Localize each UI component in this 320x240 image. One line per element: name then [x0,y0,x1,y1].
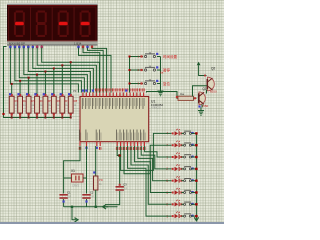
svg-text:P0: P0 [73,89,77,93]
svg-text:1k: 1k [99,183,102,186]
svg-text:Ca: Ca [180,92,184,96]
svg-text:CRYS: CRYS [72,184,79,188]
svg-text:22P: 22P [67,196,72,199]
svg-text:8550: 8550 [210,90,217,94]
svg-text:R8: R8 [74,99,78,103]
svg-text:1k: 1k [74,104,77,107]
svg-text:Q2: Q2 [211,67,215,71]
svg-text:22P: 22P [123,188,128,191]
svg-text:AT89C52: AT89C52 [151,107,162,110]
svg-text:C1: C1 [67,190,71,194]
svg-text:X1: X1 [71,169,75,173]
svg-text:8550: 8550 [202,104,209,108]
svg-text:C3: C3 [123,182,127,186]
svg-text:暂停: 暂停 [163,68,170,73]
svg-text:复位: 复位 [163,81,170,86]
svg-text:6a: 6a [160,71,164,75]
svg-text:C2: C2 [90,190,94,194]
svg-text:PD: PD [99,178,103,182]
svg-text:1 B34: 1 B34 [74,41,82,45]
svg-text:22P: 22P [90,196,95,199]
svg-text:MXXXB5 DP: MXXXB5 DP [9,41,25,45]
svg-text:时间设置: 时间设置 [163,54,177,59]
